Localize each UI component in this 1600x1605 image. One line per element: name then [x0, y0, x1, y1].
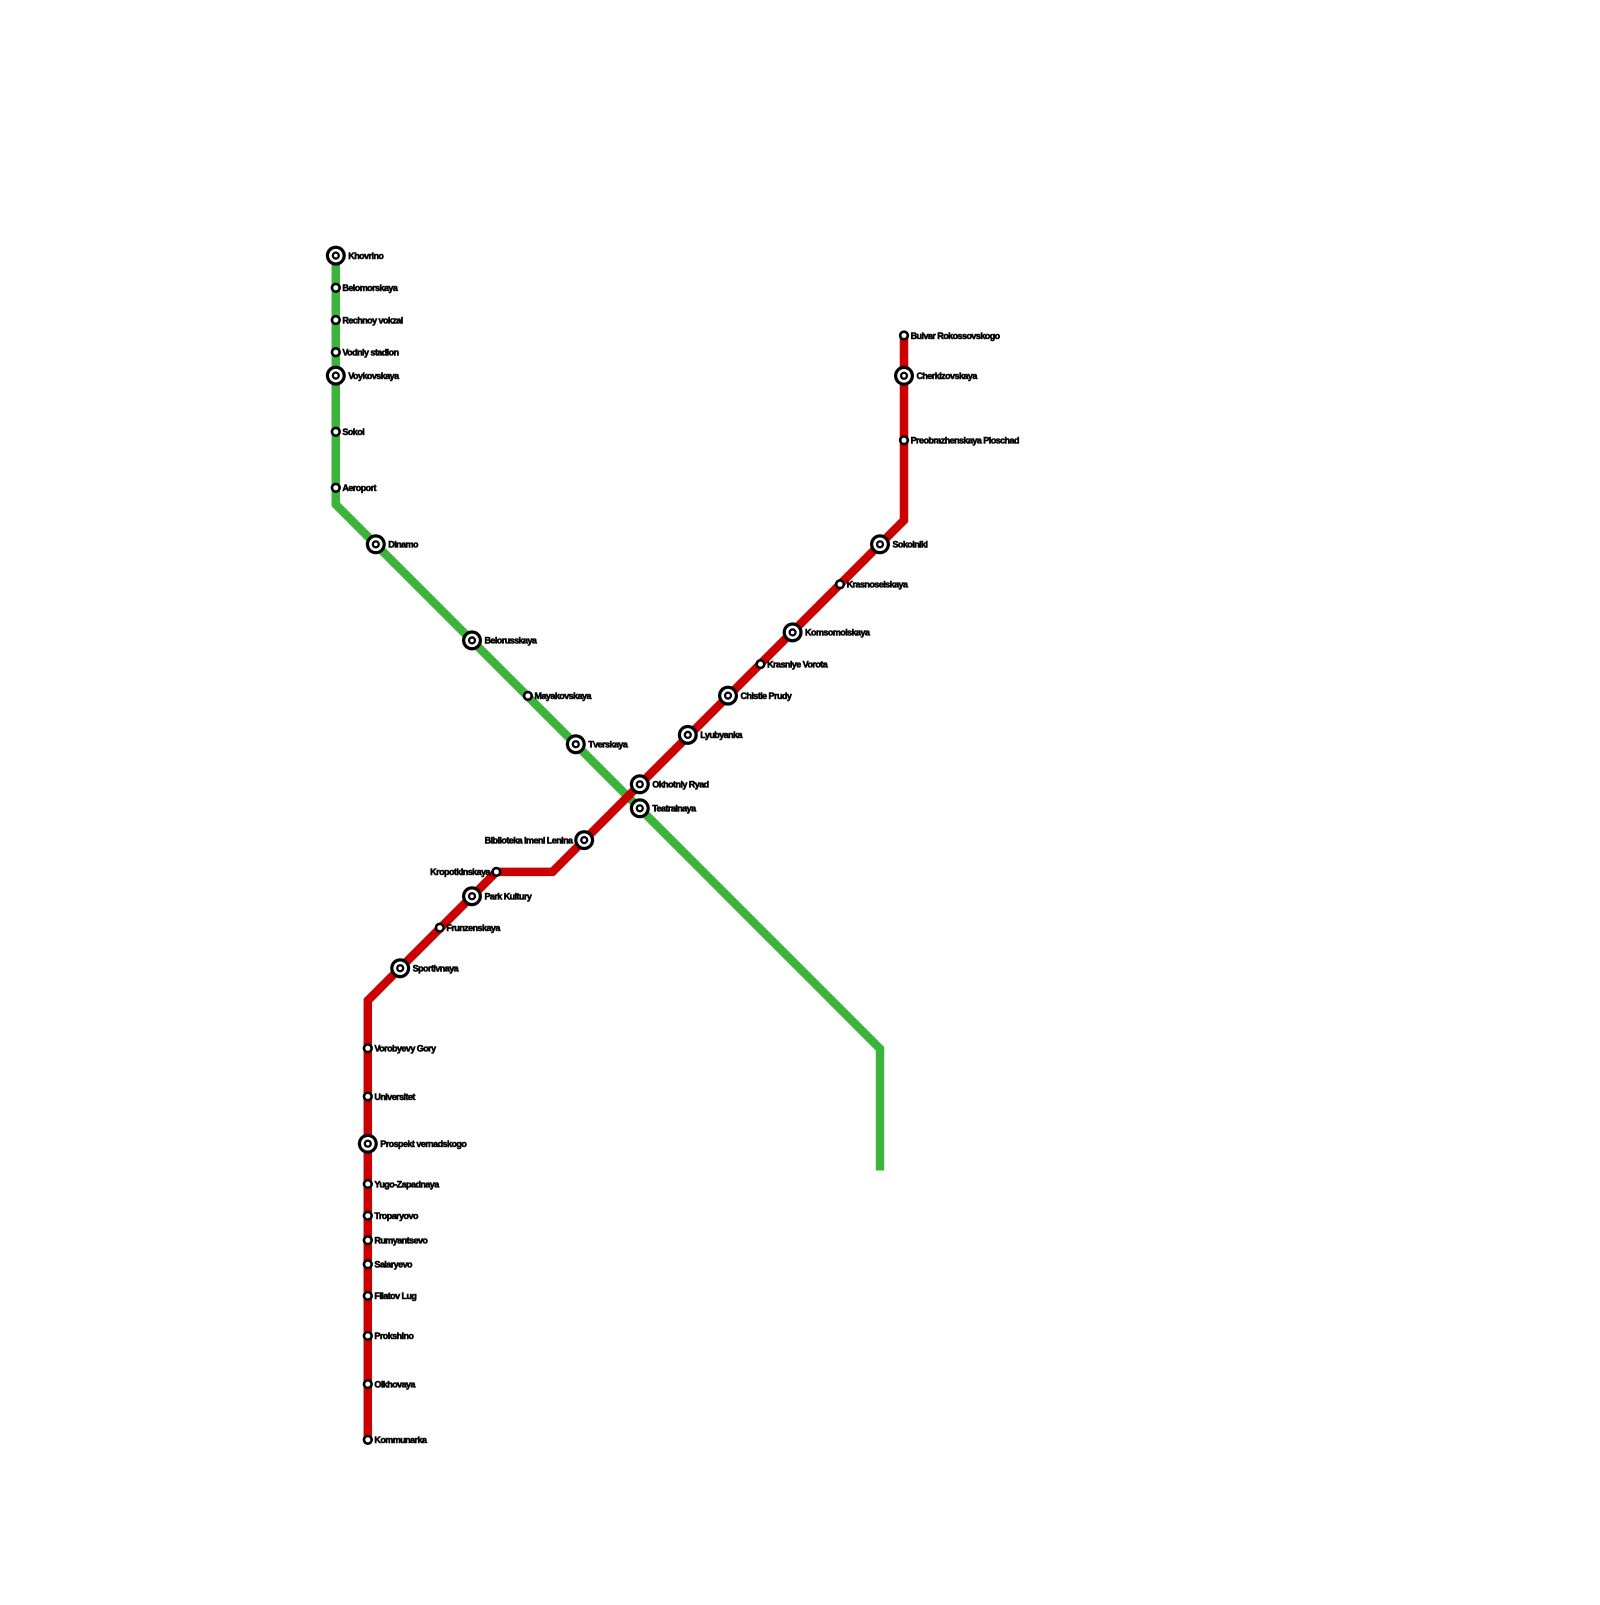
- svg-text:Rechnoy vokzal: Rechnoy vokzal: [342, 315, 402, 325]
- station Sokol marker: [331, 427, 341, 437]
- svg-text:Bulvar Rokossovskogo: Bulvar Rokossovskogo: [911, 331, 1001, 341]
- svg-text:Kropotkinskaya: Kropotkinskaya: [430, 867, 491, 877]
- station Vorobyevy Gory marker: [363, 1043, 373, 1053]
- svg-text:Frunzenskaya: Frunzenskaya: [446, 923, 501, 933]
- station Prospekt vernadskogo marker: [358, 1134, 378, 1154]
- svg-text:Vodniy stadion: Vodniy stadion: [342, 347, 398, 357]
- station Park Kultury marker: [462, 886, 482, 906]
- station Sokolniki marker: [870, 534, 890, 554]
- station Okhotniy Ryad marker: [630, 774, 650, 794]
- station Prokshino marker: [363, 1331, 373, 1341]
- station Bulvar Rokossovskogo marker: [899, 330, 909, 340]
- station Mayakovskaya marker: [523, 691, 533, 701]
- svg-text:Vorobyevy Gory: Vorobyevy Gory: [374, 1044, 436, 1054]
- svg-text:Khovrino: Khovrino: [348, 251, 384, 261]
- svg-text:Sportivnaya: Sportivnaya: [413, 963, 460, 973]
- svg-text:Komsomolskaya: Komsomolskaya: [805, 628, 871, 638]
- red metro line (Sokolnicheskaya): [368, 336, 904, 1440]
- station Rumyantsevo marker: [363, 1235, 373, 1245]
- station Krasnoselskaya marker: [835, 579, 845, 589]
- station Komsomolskaya marker: [783, 622, 803, 642]
- svg-text:Yugo-Zapadnaya: Yugo-Zapadnaya: [374, 1179, 440, 1189]
- svg-text:Universitet: Universitet: [374, 1092, 415, 1102]
- station Chistie Prudy marker: [718, 686, 738, 706]
- svg-text:Lyubyanka: Lyubyanka: [700, 730, 743, 740]
- svg-text:Mayakovskaya: Mayakovskaya: [535, 691, 593, 701]
- station Belorusskaya marker: [462, 630, 482, 650]
- station Khovrino marker: [326, 246, 346, 266]
- station Frunzenskaya marker: [435, 923, 445, 933]
- svg-text:Voykovskaya: Voykovskaya: [348, 371, 400, 381]
- station Teatralnaya marker: [630, 798, 650, 818]
- svg-text:Belomorskaya: Belomorskaya: [342, 283, 398, 293]
- green metro line (Zamoskvoretskaya): [336, 256, 880, 1171]
- station Aeroport marker: [331, 483, 341, 493]
- station Biblioteka Imeni Lenina marker: [574, 830, 594, 850]
- station Yugo-Zapadnaya marker: [363, 1179, 373, 1189]
- station Salaryevo marker: [363, 1259, 373, 1269]
- station Olkhovaya marker: [363, 1379, 373, 1389]
- svg-text:Preobrazhenskaya Ploschad: Preobrazhenskaya Ploschad: [911, 436, 1019, 446]
- svg-text:Kommunarka: Kommunarka: [374, 1435, 428, 1445]
- station Filatov Lug marker: [363, 1291, 373, 1301]
- svg-text:Cherkizovskaya: Cherkizovskaya: [916, 371, 978, 381]
- svg-text:Park Kultury: Park Kultury: [484, 891, 531, 901]
- station Sportivnaya marker: [390, 958, 410, 978]
- station Kropotkinskaya marker: [491, 867, 501, 877]
- svg-text:Tverskaya: Tverskaya: [588, 739, 629, 749]
- svg-text:Dinamo: Dinamo: [388, 540, 419, 550]
- station Universitet marker: [363, 1091, 373, 1101]
- svg-text:Okhotniy Ryad: Okhotniy Ryad: [652, 780, 708, 790]
- station Dinamo marker: [366, 534, 386, 554]
- svg-text:Teatralnaya: Teatralnaya: [652, 804, 697, 814]
- svg-text:Krasnoselskaya: Krasnoselskaya: [847, 580, 909, 590]
- svg-text:Prokshino: Prokshino: [374, 1331, 414, 1341]
- station Lyubyanka marker: [678, 725, 698, 745]
- station Vodniy stadion marker: [331, 347, 341, 357]
- svg-text:Filatov Lug: Filatov Lug: [374, 1291, 416, 1301]
- svg-text:Belorusskaya: Belorusskaya: [484, 636, 537, 646]
- svg-text:Krasniye Vorota: Krasniye Vorota: [767, 659, 829, 669]
- svg-text:Sokol: Sokol: [342, 427, 364, 437]
- svg-text:Troparyovo: Troparyovo: [374, 1211, 419, 1221]
- svg-text:Sokolniki: Sokolniki: [892, 540, 927, 550]
- station Krasniye Vorota marker: [755, 659, 765, 669]
- station Belomorskaya marker: [331, 283, 341, 293]
- station Tverskaya marker: [566, 734, 586, 754]
- station Preobrazhenskaya Ploschad marker: [899, 435, 909, 445]
- station Troparyovo marker: [363, 1211, 373, 1221]
- svg-text:Rumyantsevo: Rumyantsevo: [374, 1236, 428, 1246]
- svg-text:Biblioteka Imeni Lenina: Biblioteka Imeni Lenina: [485, 835, 574, 845]
- station Voykovskaya marker: [326, 366, 346, 386]
- svg-text:Salaryevo: Salaryevo: [374, 1260, 413, 1270]
- svg-text:Aeroport: Aeroport: [342, 483, 376, 493]
- svg-text:Olkhovaya: Olkhovaya: [374, 1379, 416, 1389]
- station Rechnoy vokzal marker: [331, 315, 341, 325]
- station Cherkizovskaya marker: [894, 366, 914, 386]
- svg-text:Prospekt vernadskogo: Prospekt vernadskogo: [380, 1139, 467, 1149]
- svg-text:Chistie Prudy: Chistie Prudy: [740, 691, 791, 701]
- station Kommunarka marker: [363, 1435, 373, 1445]
